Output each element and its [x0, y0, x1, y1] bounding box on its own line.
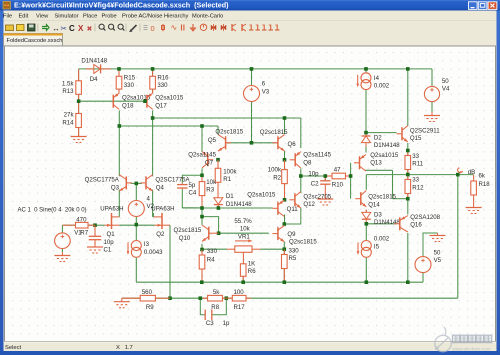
toolbar file icons — [6, 25, 14, 31]
document tab bar — [4, 33, 497, 46]
resistor R9 560 — [122, 297, 140, 299]
node junctions top — [117, 67, 121, 71]
wire I4 column — [365, 69, 367, 73]
svg-text:dB: dB — [468, 169, 475, 176]
diode D2 — [365, 133, 367, 136]
capacitor C3 1p — [204, 310, 206, 320]
capacitor C2 — [324, 176, 326, 181]
wire I3 column — [135, 225, 137, 241]
svg-text:Q2sc2705: Q2sc2705 — [303, 193, 331, 200]
svg-text:Q14: Q14 — [368, 201, 380, 208]
svg-text:C4: C4 — [189, 190, 197, 197]
resistor R11 — [407, 151, 409, 156]
wire C4 loop — [182, 175, 202, 183]
svg-text:↔: ↔ — [52, 24, 60, 33]
ground under C1 — [94, 245, 96, 248]
svg-text:27k: 27k — [64, 112, 75, 119]
transistor Q10 npn — [208, 227, 210, 240]
toolbar zoom icons — [99, 24, 104, 29]
svg-text:D1N4148: D1N4148 — [374, 219, 400, 226]
wire Q8 collector — [300, 169, 302, 177]
wire V1 to R7 — [62, 224, 75, 226]
junctions bottom — [168, 296, 172, 300]
transistor Q13 pnp — [359, 156, 361, 169]
svg-text:R10: R10 — [332, 181, 344, 188]
probe dB at output — [458, 171, 461, 174]
transistor Q8 pnp — [294, 153, 296, 166]
svg-text:47: 47 — [334, 167, 341, 174]
wire -rail — [136, 281, 423, 283]
wire V5 to -rail — [422, 273, 424, 283]
svg-text:R1: R1 — [223, 176, 231, 183]
resistor R17 100 — [226, 297, 232, 299]
current source I4 — [361, 73, 371, 83]
svg-text:FoldedCascode.sxsch: FoldedCascode.sxsch — [7, 38, 63, 44]
wire Q17 collector drop — [152, 111, 154, 119]
wire feedback bottom line — [122, 297, 140, 299]
voltage source V3 — [244, 86, 260, 102]
svg-text:Q6: Q6 — [288, 141, 297, 148]
svg-text:X 1.7: X 1.7 — [116, 345, 133, 351]
wire C1 column — [94, 225, 96, 235]
wire Q10 Q9 base line — [219, 232, 269, 234]
transistor Q3 npn — [125, 176, 127, 189]
wire emitters line — [119, 224, 154, 226]
svg-text:330: 330 — [124, 82, 135, 89]
watermark logo — [435, 327, 492, 352]
svg-text:Q15: Q15 — [410, 135, 422, 142]
svg-text:Monte-Carlo: Monte-Carlo — [192, 14, 223, 20]
svg-text:Q2sc1815: Q2sc1815 — [215, 129, 243, 136]
svg-text:330: 330 — [289, 248, 300, 255]
svg-text:Q2sc1815: Q2sc1815 — [289, 239, 317, 246]
svg-text:R12: R12 — [412, 184, 424, 191]
svg-text:I5: I5 — [374, 243, 380, 250]
svg-text:100: 100 — [234, 289, 245, 296]
svg-text:I3: I3 — [144, 241, 150, 248]
wire C3 loop — [200, 298, 205, 315]
voltage source V1 — [55, 233, 71, 249]
wire Q3 Q4 base line — [131, 182, 143, 184]
svg-text:Probe: Probe — [102, 14, 117, 20]
wire R13 R14 column — [78, 69, 80, 136]
svg-text:R3: R3 — [206, 187, 214, 194]
ground near V5 — [437, 233, 439, 236]
wire V3 to Q5 Q6 bases — [251, 102, 253, 143]
wire Q15 emitter to R11 — [407, 143, 409, 156]
resistor R14 — [78, 101, 80, 113]
junctions mid — [200, 174, 204, 178]
svg-text:6k: 6k — [479, 173, 486, 180]
wire Q13 Q14 base column — [350, 163, 352, 199]
wire Q5 Q6 base line — [227, 142, 277, 144]
wire R11 R12 column — [407, 170, 409, 180]
svg-text:10k: 10k — [240, 226, 251, 233]
wire V1 column — [61, 225, 63, 233]
wire Q18 collector drop — [118, 111, 120, 127]
toolbar — [4, 21, 497, 34]
toolbar wire pencil icon — [131, 25, 137, 31]
resistor R8 5k — [203, 297, 208, 299]
transistor Q14 npn — [360, 192, 362, 205]
svg-text:File: File — [3, 14, 12, 20]
resistor R2 — [284, 160, 286, 170]
svg-text:UPA63H: UPA63H — [151, 206, 174, 213]
watermark chinese text — [453, 335, 460, 342]
svg-text:Q2sa1145: Q2sa1145 — [188, 152, 216, 159]
svg-text:330: 330 — [157, 82, 168, 89]
ground under C2 — [324, 196, 326, 200]
svg-text:Q2SC1775A: Q2SC1775A — [85, 176, 120, 183]
svg-text:10k: 10k — [206, 179, 217, 186]
svg-text:33: 33 — [412, 177, 419, 184]
svg-text:100k: 100k — [223, 169, 237, 176]
svg-text:UPA63H: UPA63H — [100, 206, 123, 213]
svg-text:Q12: Q12 — [303, 201, 315, 208]
wire Q16 base — [366, 223, 396, 225]
diode D1 — [217, 197, 219, 199]
wire Q18 Q17 base line — [79, 100, 147, 102]
wire Q10 emitter — [201, 244, 203, 250]
wire Q8 emitter drop — [300, 118, 302, 148]
svg-text:E:¥work¥Circuit¥IntroV¥fig4¥Fo: E:¥work¥Circuit¥IntroV¥fig4¥FoldedCascod… — [14, 0, 229, 9]
wire R1 D1 column — [217, 160, 219, 169]
svg-text:Q2sa1015: Q2sa1015 — [247, 192, 276, 199]
capacitor C4 — [181, 183, 183, 184]
svg-text:Q2sc1815: Q2sc1815 — [174, 227, 202, 234]
wire V2 column — [135, 183, 137, 200]
wire VR1 left — [202, 248, 227, 250]
wire feedback riser — [457, 175, 459, 299]
svg-text:D1N4148: D1N4148 — [226, 201, 252, 208]
current source I5 — [361, 241, 371, 251]
wire V5 positive to ground — [423, 233, 438, 257]
svg-text:50: 50 — [434, 249, 441, 256]
svg-text:0: 0 — [151, 24, 155, 33]
svg-text:Q2SC2911: Q2SC2911 — [410, 127, 440, 134]
transistor Q16 pnp — [399, 217, 401, 230]
resistor R15 — [118, 69, 120, 76]
svg-text:I4: I4 — [374, 75, 380, 82]
svg-text:Q2sa1015: Q2sa1015 — [370, 152, 399, 159]
svg-text:D3: D3 — [374, 211, 382, 218]
active tab FoldedCascode.sxsch — [4, 34, 63, 47]
svg-text:Q10: Q10 — [179, 235, 191, 242]
svg-text:C2: C2 — [311, 181, 319, 188]
wire Q14 emitter to D3 — [365, 210, 367, 213]
wire left cascode column — [118, 126, 120, 176]
wire I5 to -rail — [365, 258, 367, 282]
ground under R18 — [473, 205, 475, 208]
svg-text:1.5k: 1.5k — [62, 80, 74, 87]
svg-text:Q2: Q2 — [156, 231, 165, 238]
svg-text:C: C — [69, 24, 75, 33]
wire bias rail y208 — [182, 207, 272, 209]
svg-text:D1: D1 — [226, 193, 234, 200]
svg-text:560: 560 — [142, 289, 153, 296]
wire Q5 collector drop — [217, 126, 219, 134]
svg-text:Q1: Q1 — [107, 231, 116, 238]
ground under V1 — [61, 252, 63, 256]
svg-text:R15: R15 — [124, 75, 136, 82]
svg-text:5k: 5k — [213, 289, 220, 296]
wire D3 to node — [365, 223, 367, 241]
svg-text:0.002: 0.002 — [374, 236, 390, 243]
svg-text:Q18: Q18 — [122, 102, 134, 109]
wire R5 column — [283, 249, 285, 282]
svg-text:V5: V5 — [434, 257, 442, 264]
svg-text:100k: 100k — [268, 167, 282, 174]
wire Q9 emitter — [283, 242, 285, 249]
svg-text:Q13: Q13 — [370, 160, 382, 167]
diode D4 — [86, 68, 94, 70]
svg-text:D1N4148: D1N4148 — [81, 57, 107, 64]
window buttons min max close — [469, 2, 478, 10]
svg-text:R17: R17 — [234, 304, 246, 311]
wire Q6 collector drop — [284, 118, 286, 134]
app icon — [3, 2, 11, 10]
transistor Q1 upa63h — [111, 213, 113, 229]
wire VR1 right to Q9 emitter — [260, 248, 284, 250]
wire C2 R10 line — [301, 175, 351, 177]
transistor Q5 npn — [225, 136, 227, 149]
window borders — [0, 11, 4, 355]
wire Q15 base — [366, 132, 397, 134]
wire rail y126 — [119, 125, 218, 127]
svg-text:Q3: Q3 — [111, 185, 120, 192]
resistor R10 47 — [325, 175, 332, 177]
svg-text:R7: R7 — [80, 230, 88, 237]
svg-text:470: 470 — [76, 217, 87, 224]
current source I3 — [131, 241, 141, 251]
wire input to Q1 — [95, 224, 105, 226]
voltage source V4 — [424, 86, 439, 101]
svg-text:R11: R11 — [412, 161, 423, 168]
svg-text:✂: ✂ — [61, 24, 68, 33]
svg-text:V3: V3 — [262, 88, 270, 95]
transistor Q17 pnp — [152, 91, 154, 93]
svg-text:D2: D2 — [374, 134, 382, 141]
svg-text:Q2sa1145: Q2sa1145 — [303, 152, 331, 159]
wire right cascode column — [152, 118, 154, 176]
svg-text:Q9: Q9 — [287, 231, 296, 238]
menu bar — [4, 11, 497, 21]
svg-text:Q7: Q7 — [205, 160, 214, 167]
capacitor C1 — [94, 225, 96, 236]
svg-text:50: 50 — [442, 78, 449, 85]
transistor Q6 npn — [277, 136, 279, 149]
wire D2 to Q13 — [365, 146, 367, 152]
svg-text:10p: 10p — [104, 239, 115, 246]
svg-text:Q16: Q16 — [410, 222, 422, 229]
wire Q10 vbe loop — [201, 208, 203, 225]
svg-text:10p: 10p — [308, 171, 319, 178]
ground at R9 — [121, 298, 123, 302]
wire Q15 collector — [407, 69, 409, 126]
resistor R18 — [473, 175, 475, 181]
transistor Q11 pnp — [277, 202, 279, 215]
wire R4 column — [201, 250, 203, 283]
svg-text:C3: C3 — [206, 320, 214, 327]
svg-text:R8: R8 — [211, 304, 219, 311]
svg-text:0.0043: 0.0043 — [144, 249, 163, 256]
svg-text:Q8: Q8 — [303, 160, 312, 167]
svg-text:1K: 1K — [248, 261, 255, 268]
svg-text:VR1: VR1 — [238, 233, 250, 240]
resistor R3 — [201, 176, 203, 182]
transistor Q15 npn — [401, 127, 403, 140]
svg-text:www.elecfans.com: www.elecfans.com — [453, 347, 491, 352]
wire R6 column — [242, 276, 244, 282]
svg-text:Place: Place — [83, 14, 97, 20]
wire Q7 emitter column — [201, 126, 203, 152]
svg-text:Q2SC1775A: Q2SC1775A — [155, 176, 190, 183]
wire V4 to ground — [431, 102, 433, 113]
wire V4 feed — [431, 69, 433, 87]
svg-text:R4: R4 — [207, 257, 215, 264]
wire R15 column — [118, 69, 120, 91]
wire Q13 collector run — [365, 169, 392, 171]
transistor Q9 npn — [277, 227, 279, 240]
svg-text:R18: R18 — [479, 181, 491, 188]
svg-text:Q4: Q4 — [156, 185, 165, 192]
svg-text:Edit: Edit — [19, 14, 29, 20]
wire Q2 to feedback column — [169, 225, 171, 298]
svg-text:Q2sc1815: Q2sc1815 — [260, 129, 288, 136]
svg-text:Q17: Q17 — [155, 102, 167, 109]
voltage source V5 — [415, 257, 431, 273]
svg-text:Select: Select — [5, 345, 22, 351]
ground under R14 — [78, 133, 80, 137]
resistor R6 1K — [242, 263, 244, 265]
resistor R1 — [217, 160, 219, 168]
status bar — [4, 342, 497, 351]
wire top +rail — [79, 68, 432, 70]
svg-text:D4: D4 — [90, 76, 98, 83]
svg-text:330: 330 — [207, 248, 218, 255]
svg-text:33: 33 — [412, 153, 419, 160]
resistor R13 — [78, 70, 80, 81]
wire Q16 emitter — [407, 199, 409, 215]
svg-text:R5: R5 — [289, 255, 297, 262]
transistor Q7 pnp — [207, 153, 209, 166]
wire V3 top — [251, 69, 253, 86]
svg-text:R2: R2 — [273, 174, 281, 181]
svg-text:55.7%: 55.7% — [234, 218, 252, 225]
wire Q12 collector — [300, 176, 302, 193]
svg-text:R14: R14 — [62, 119, 74, 126]
diode D3 — [365, 210, 367, 213]
transistor Q18 pnp — [118, 91, 120, 93]
svg-text:Q2sa1015: Q2sa1015 — [155, 95, 184, 102]
svg-text:R6: R6 — [248, 268, 256, 275]
svg-text:X: X — [78, 24, 84, 33]
ground under V4 — [431, 112, 433, 116]
resistor R12 — [407, 175, 409, 180]
svg-text:Q11: Q11 — [287, 206, 299, 213]
voltage source V2 — [128, 201, 144, 217]
wire Q11 collector — [284, 215, 286, 224]
svg-text:AC 1 0 Sine(0 4 20k 0 0): AC 1 0 Sine(0 4 20k 0 0) — [18, 207, 87, 213]
wire output node — [366, 174, 473, 176]
wire Q7 collector — [201, 169, 203, 176]
svg-text:V4: V4 — [442, 86, 450, 93]
wire Q12 emitter run — [284, 208, 301, 224]
svg-text:Q5: Q5 — [208, 137, 217, 144]
resistor R16 — [152, 69, 154, 76]
wire Q16 collector to -rail — [407, 233, 409, 282]
resistor R4 330 — [201, 250, 203, 255]
resistor R5 330 — [283, 249, 285, 254]
svg-text:D1N4148: D1N4148 — [374, 142, 400, 149]
svg-text:1p: 1p — [223, 320, 230, 327]
potentiometer VR1 — [227, 248, 235, 250]
transistor Q2 upa63h — [161, 213, 163, 229]
svg-text:0.002: 0.002 — [374, 83, 390, 90]
svg-text:✖: ✖ — [87, 26, 93, 33]
svg-text:Probe AC/Noise: Probe AC/Noise — [122, 14, 162, 20]
transistor Q4 npn — [145, 176, 147, 189]
svg-text:Simulator: Simulator — [55, 14, 79, 20]
svg-text:∿: ∿ — [171, 23, 178, 32]
svg-text:R16: R16 — [157, 75, 169, 82]
svg-text:Q2SA1208: Q2SA1208 — [410, 214, 440, 221]
svg-text:Q2sc1815: Q2sc1815 — [368, 194, 396, 201]
toolbar edit icons — [42, 25, 49, 31]
transistor Q12 npn — [294, 193, 296, 206]
svg-text:C1: C1 — [104, 247, 112, 254]
wire mid column Q6e R2 Q11 — [284, 151, 286, 170]
svg-text:R9: R9 — [146, 304, 154, 311]
resistor R7 470 — [62, 224, 75, 226]
svg-text:View: View — [36, 14, 49, 20]
wire rail y118 — [153, 117, 301, 119]
svg-text:Hierarchy: Hierarchy — [164, 14, 188, 20]
wire R16 column — [152, 69, 154, 91]
wire C2 column — [324, 176, 326, 181]
svg-text:R13: R13 — [62, 88, 74, 95]
